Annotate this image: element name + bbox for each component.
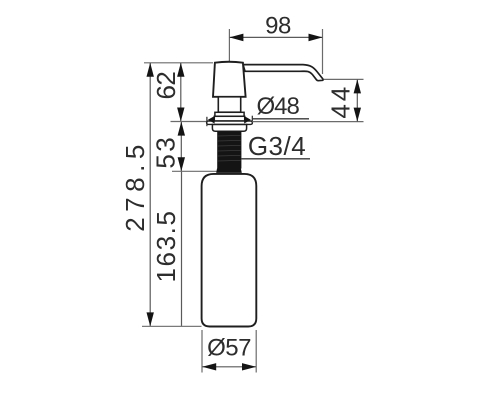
o57 left extension line — [201, 330, 203, 373]
svg-text:53: 53 — [151, 135, 181, 169]
svg-text:Ø57: Ø57 — [207, 335, 251, 362]
o57 right extension line — [255, 330, 257, 373]
flange ring 2 — [214, 116, 244, 121]
62 dimension line — [180, 63, 182, 121]
flange nut — [212, 125, 246, 132]
o48 tick left — [206, 117, 208, 126]
bottle — [202, 174, 257, 327]
44 top extension line (spout tip) — [324, 78, 364, 80]
163.5 dimension line — [181, 171, 183, 326]
278.5 arrow top — [147, 63, 154, 77]
62 arrow bottom — [177, 108, 184, 122]
spout — [243, 65, 323, 81]
extension line flange-top left — [171, 121, 207, 123]
svg-text:G3/4: G3/4 — [248, 131, 306, 161]
pump head — [213, 62, 246, 97]
o48 arrow left — [208, 116, 215, 124]
svg-text:163.5: 163.5 — [151, 209, 181, 282]
flange ring 1 — [215, 112, 244, 116]
278.5 arrow bottom — [147, 312, 154, 326]
thread flare — [216, 169, 242, 173]
o48 tick right — [251, 116, 253, 125]
extension line bottle bottom — [142, 325, 202, 327]
svg-text:98: 98 — [265, 13, 291, 40]
flange washer — [207, 121, 253, 124]
top extension line at head top level — [144, 62, 213, 64]
44 arrow top — [354, 79, 361, 93]
svg-text:Ø48: Ø48 — [257, 93, 300, 120]
98 arrow left — [229, 34, 243, 42]
98 dim right extension line — [322, 29, 324, 74]
o48 leader line — [252, 118, 309, 120]
o57 dimension line — [202, 366, 256, 368]
278.5 dimension line — [149, 63, 151, 326]
98 dimension line — [229, 36, 322, 38]
53 arrow bottom — [178, 157, 185, 171]
98 dim left extension line — [228, 29, 230, 63]
extension line flange-top right (44 bottom) — [252, 121, 363, 123]
svg-text:278.5: 278.5 — [120, 139, 150, 232]
neck — [218, 97, 240, 112]
svg-text:44: 44 — [326, 84, 356, 119]
svg-text:62: 62 — [151, 72, 181, 100]
62 arrow top — [177, 63, 184, 77]
o57 arrow right — [242, 363, 256, 370]
thread ridges — [217, 135, 240, 161]
G3/4 leader line — [241, 158, 310, 160]
53 dimension line — [180, 122, 182, 172]
thread rod — [217, 131, 241, 168]
44 dimension line — [356, 80, 358, 122]
53 arrow top — [178, 122, 185, 136]
98 arrow right — [309, 34, 323, 42]
44 arrow bottom — [354, 108, 361, 122]
extension line thread-bottom (53/163.5 boundary) — [172, 170, 217, 172]
o48 arrow right — [244, 116, 251, 124]
o57 arrow left — [202, 363, 216, 370]
